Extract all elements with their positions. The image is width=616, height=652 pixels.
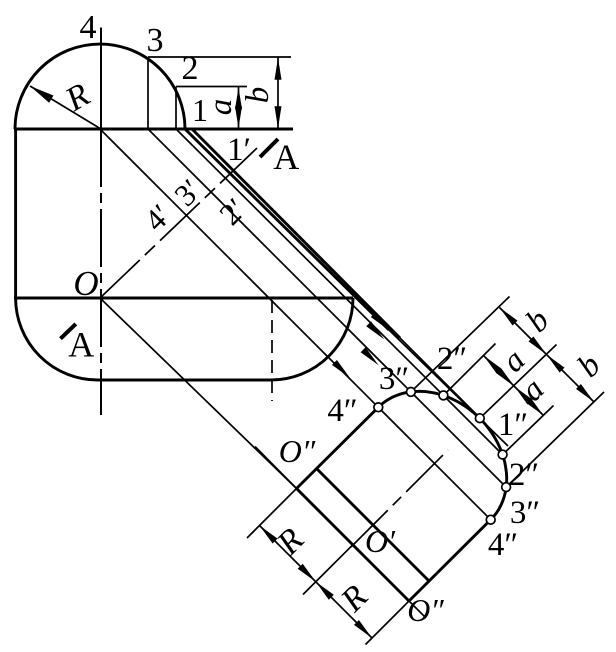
node 2 double-prime xyxy=(439,391,448,400)
bottom-right corner arc xyxy=(271,298,353,380)
lower edge line through O xyxy=(14,297,353,300)
svg-text:4″: 4″ xyxy=(488,527,518,563)
extension of end edge SE xyxy=(409,601,426,618)
section plane A-A chain line xyxy=(100,148,257,298)
left edge of plate xyxy=(14,129,17,298)
svg-text:4: 4 xyxy=(80,9,97,46)
fold line (tangent) y=129 xyxy=(14,128,293,131)
projection line of point 3 xyxy=(147,57,149,129)
dimension a a chain xyxy=(484,356,544,416)
ray from 4 through 4 double-prime nodes xyxy=(100,129,378,407)
extension line through 2 double-prime right xyxy=(503,406,554,455)
dimension R R chain xyxy=(260,526,373,639)
node 4 double-prime xyxy=(374,403,383,412)
svg-text:O″: O″ xyxy=(279,433,316,469)
svg-text:A: A xyxy=(68,324,94,364)
auxiliary view SE edge xyxy=(409,520,491,601)
node 2 double-prime right xyxy=(498,450,507,459)
svg-text:3″: 3″ xyxy=(510,495,540,531)
extension of axis xyxy=(303,545,353,595)
node 1 double-prime xyxy=(475,414,484,423)
ray from 3 through 3 double-prime nodes xyxy=(148,129,411,392)
dimension b xyxy=(277,57,279,129)
extension of NW edge xyxy=(247,489,297,539)
dimension a xyxy=(238,87,240,130)
svg-text:4″: 4″ xyxy=(327,393,357,429)
node 3 double-prime xyxy=(407,388,416,397)
svg-text:O: O xyxy=(73,264,98,303)
section mark A upper xyxy=(260,139,278,157)
radius R leader xyxy=(30,86,101,129)
vertical centerline chain below xyxy=(100,129,102,415)
svg-text:2″: 2″ xyxy=(509,457,539,493)
bottom-left corner arc xyxy=(16,298,98,380)
extension of end edge NW xyxy=(255,447,297,489)
bottom edge of lower portion xyxy=(97,379,271,382)
level line of point 3 xyxy=(148,56,291,58)
svg-text:1″: 1″ xyxy=(498,407,528,443)
svg-text:O′: O′ xyxy=(365,523,396,559)
svg-text:1′: 1′ xyxy=(227,132,251,168)
node 4 double-prime bottom xyxy=(486,515,495,524)
front view semicircular end outline xyxy=(15,44,185,129)
section mark A lower xyxy=(61,324,76,339)
svg-text:a: a xyxy=(203,99,239,116)
extension line through 3 double-prime right xyxy=(506,392,604,487)
auxiliary view elliptical end xyxy=(378,391,506,519)
plate edge lower thin continuation xyxy=(400,338,478,416)
vertical centerline solid above xyxy=(100,28,102,130)
auxiliary view end edge (O line image) xyxy=(297,489,410,602)
auxiliary view NW edge xyxy=(297,407,379,488)
svg-text:A: A xyxy=(273,137,299,177)
extension line through 1 double-prime xyxy=(480,345,557,419)
svg-text:3″: 3″ xyxy=(379,361,409,397)
svg-text:3: 3 xyxy=(147,22,164,59)
svg-text:2: 2 xyxy=(182,50,199,87)
svg-text:b: b xyxy=(240,87,276,104)
ray from 1 to 1 double-prime xyxy=(389,330,508,446)
ray from 2 through 2 double-prime nodes xyxy=(176,129,443,395)
extension line through 3 double-prime xyxy=(411,297,510,392)
auxiliary view centre axis chain line xyxy=(351,450,448,547)
node 3 double-prime right xyxy=(502,483,511,492)
projection line of point 2 xyxy=(175,87,177,130)
plate edge view lower line xyxy=(192,129,400,338)
svg-text:1: 1 xyxy=(192,92,208,128)
svg-text:2″: 2″ xyxy=(437,341,467,377)
svg-text:O″: O″ xyxy=(407,592,444,628)
bend line in auxiliary view xyxy=(317,469,430,582)
extension line through 2 double-prime xyxy=(443,344,495,396)
level line of point 2 xyxy=(176,86,247,88)
hidden line at tangent of right corner xyxy=(271,300,273,401)
extension of SE edge xyxy=(366,601,410,645)
dimension b b chain xyxy=(500,308,595,403)
plate edge view upper line xyxy=(185,129,389,330)
ray from O to O double-prime xyxy=(100,298,297,489)
